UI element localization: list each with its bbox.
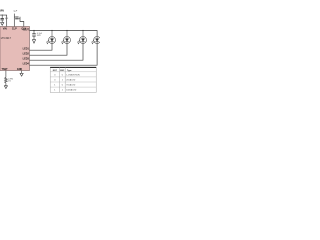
svg-text:25mA LED: 25mA LED <box>66 78 76 81</box>
truth table box <box>50 67 96 92</box>
capacitor C1 plates <box>1 19 4 20</box>
svg-text:LED4: LED4 <box>23 63 30 66</box>
LED D1 <box>46 31 55 45</box>
LED D4 <box>92 37 101 45</box>
svg-text:LTC3217: LTC3217 <box>1 37 12 40</box>
wire TSET pin stub <box>5 71 7 78</box>
svg-text:75mA LED: 75mA LED <box>66 84 76 87</box>
ground for GND pin <box>20 73 23 76</box>
node dot LED2 <box>66 30 67 31</box>
svg-text:VIN: VIN <box>3 27 7 30</box>
IC U1 LTC3217 body <box>0 27 30 71</box>
ground for C3 <box>32 40 35 44</box>
table heavy top border <box>50 66 96 68</box>
wire GND pin stub <box>21 71 23 74</box>
resistor R1 <box>5 78 8 83</box>
svg-text:VOUT: VOUT <box>22 28 29 31</box>
table row separators <box>50 72 96 87</box>
LED D2 <box>61 31 70 45</box>
capacitor C1 1uF input: leads <box>1 15 3 22</box>
capacitor C2 plates <box>15 17 18 19</box>
wire VOUT top rail <box>30 31 98 37</box>
capacitor C3 plates <box>32 34 36 36</box>
node dot CPO cap <box>33 30 34 31</box>
table column separator 1 <box>59 67 61 92</box>
svg-text:CLP: CLP <box>12 27 17 30</box>
capacitor C2 right leg wire <box>20 17 24 27</box>
ground for C1 <box>1 23 4 26</box>
svg-text:100mA LED: 100mA LED <box>66 89 77 92</box>
svg-text:LED2: LED2 <box>23 53 30 56</box>
svg-text:X5R: X5R <box>37 35 41 37</box>
svg-text:LED1: LED1 <box>23 48 30 51</box>
svg-text:1µF: 1µF <box>13 11 17 13</box>
svg-text:1-CHA(TORCH): 1-CHA(TORCH) <box>66 73 80 76</box>
wire LED3 return to pin LED3 <box>30 44 84 61</box>
node VIN junction dot <box>2 15 3 16</box>
svg-text:TSET: TSET <box>2 68 9 71</box>
wire LED1 return to pin LED1 <box>30 44 53 51</box>
wire LED2 return to pin LED2 <box>30 44 68 56</box>
table column separator 2 <box>64 67 66 92</box>
ground for R1 <box>4 86 7 89</box>
node dot LED1 <box>51 30 52 31</box>
svg-text:LED3: LED3 <box>23 58 30 61</box>
wire LED4 return to pin LED4 <box>30 44 98 66</box>
capacitor C2 flying: left leg wire <box>13 14 15 27</box>
LED D3 <box>77 31 86 45</box>
node dot LED3 <box>82 30 83 31</box>
svg-text:VIN: VIN <box>0 11 4 13</box>
wire R1 to ground <box>5 83 7 86</box>
svg-text:1µF: 1µF <box>5 18 9 20</box>
wire VIN input <box>0 15 7 26</box>
capacitor C2 plate stubs <box>14 17 20 19</box>
capacitor C3 output: leads <box>33 31 35 40</box>
svg-text:1%: 1% <box>8 81 11 83</box>
